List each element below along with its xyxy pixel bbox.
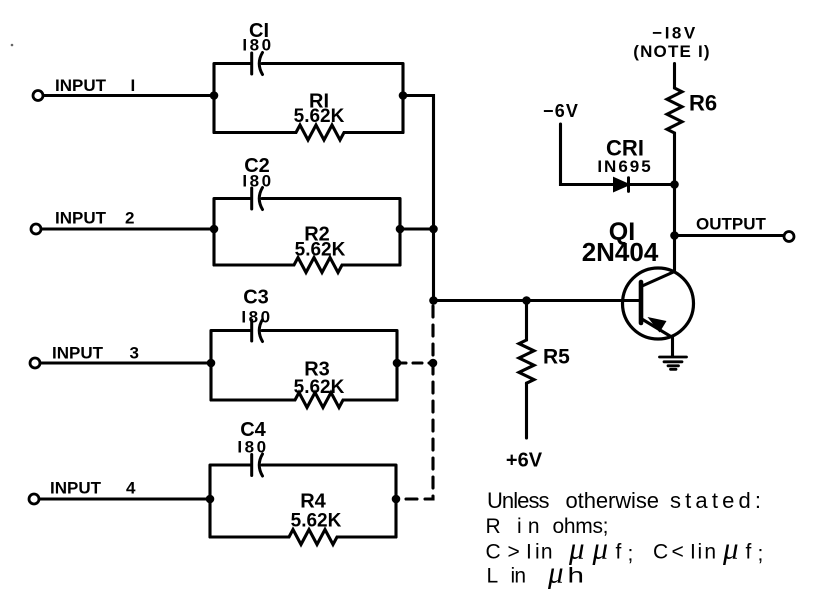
wire input 1 — [44, 94, 215, 97]
resistor R4 — [210, 530, 396, 545]
svg-text:+6V: +6V — [506, 450, 543, 472]
svg-text:−I8V: −I8V — [652, 24, 697, 43]
node base-R5 — [522, 296, 531, 305]
wire input 2 — [42, 227, 215, 230]
ground — [660, 357, 687, 369]
RC network box 3 — [211, 331, 397, 401]
svg-text:5.62K: 5.62K — [295, 240, 346, 261]
wire -18V lead — [673, 64, 676, 89]
node input4-left — [206, 495, 215, 504]
wire output — [675, 234, 784, 237]
svg-text:INPUT: INPUT — [50, 479, 102, 498]
resistor R3 — [211, 393, 397, 408]
node input3-left — [207, 359, 216, 368]
input terminal 2 — [31, 224, 41, 234]
transistor Q1 emitter lead — [641, 319, 673, 357]
svg-text:−6V: −6V — [543, 101, 579, 121]
capacitor C4 — [252, 454, 263, 476]
svg-text:2: 2 — [125, 209, 134, 228]
svg-text:IN695: IN695 — [597, 157, 652, 176]
scan speck — [11, 44, 14, 47]
svg-text:I80: I80 — [242, 36, 273, 55]
svg-text:INPUT: INPUT — [55, 209, 107, 228]
svg-text:I: I — [131, 76, 136, 95]
capacitor C2 — [252, 188, 263, 210]
capacitor C3 — [252, 320, 263, 342]
input terminal 4 — [29, 494, 39, 504]
wire R5 bottom — [525, 383, 528, 438]
wire -6V lead — [561, 124, 615, 185]
wire input 3 — [41, 361, 212, 364]
svg-text:5.62K: 5.62K — [294, 106, 345, 127]
svg-text:R6: R6 — [689, 91, 717, 116]
wire bus top — [403, 96, 434, 301]
svg-text:INPUT: INPUT — [52, 344, 104, 363]
node input2-left — [210, 225, 219, 234]
diode CR1 cathode bar — [627, 178, 630, 192]
wire input2 to bus — [400, 227, 434, 230]
node input1-right — [399, 91, 408, 100]
transistor Q1 emitter arrow — [648, 317, 667, 333]
node bus-input3 — [429, 359, 438, 368]
wire diode to collector — [629, 183, 675, 186]
svg-text:5.62K: 5.62K — [294, 377, 345, 398]
resistor R5 — [519, 340, 534, 383]
diode CR1 — [614, 178, 629, 191]
node input2-right — [396, 225, 405, 234]
svg-text:OUTPUT: OUTPUT — [696, 215, 767, 234]
svg-text:5.62K: 5.62K — [291, 511, 342, 532]
node input3-right — [393, 359, 402, 368]
resistor R2 — [214, 258, 400, 273]
svg-text:I80: I80 — [237, 438, 268, 457]
node bus-input2 — [429, 225, 438, 234]
svg-text:2N404: 2N404 — [582, 237, 659, 267]
transistor Q1 circle — [623, 268, 694, 339]
svg-text:I80: I80 — [242, 172, 273, 191]
wire collector to diode node — [673, 185, 676, 236]
svg-text:R5: R5 — [543, 346, 570, 369]
svg-text:4: 4 — [126, 479, 136, 498]
transistor Q1 base bar — [639, 282, 644, 323]
svg-text:3: 3 — [130, 344, 139, 363]
capacitor C1 — [252, 53, 263, 75]
node bus-base — [429, 296, 438, 305]
resistor R6 — [667, 88, 682, 133]
resistor R1 — [214, 125, 403, 140]
transistor Q1 collector lead — [641, 236, 675, 287]
wire dashed bus — [400, 306, 433, 499]
node input1-left — [210, 91, 219, 100]
RC network box 1 — [214, 64, 403, 133]
node diode-collector — [670, 180, 679, 189]
wire dashed input3 to bus — [397, 361, 433, 364]
svg-text:(NOTE I): (NOTE I) — [633, 42, 711, 61]
node output — [670, 231, 679, 240]
wire R5 top — [525, 301, 528, 341]
wire R6 bottom — [673, 133, 676, 185]
RC network box 2 — [214, 199, 400, 266]
svg-text:C3: C3 — [243, 287, 269, 309]
input terminal 1 — [33, 91, 43, 101]
wire input 4 — [40, 497, 211, 500]
RC network box 4 — [210, 465, 396, 537]
output terminal — [784, 232, 794, 242]
svg-text:INPUT: INPUT — [55, 76, 107, 95]
node input4-right — [392, 495, 401, 504]
input terminal 3 — [30, 358, 40, 368]
svg-text:I80: I80 — [241, 308, 272, 327]
svg-text:R4: R4 — [300, 491, 326, 513]
wire base — [434, 299, 642, 302]
